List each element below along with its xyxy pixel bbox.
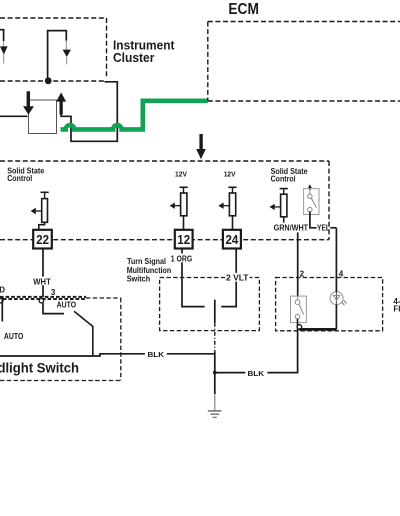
- turn signal pole: [214, 300, 216, 323]
- connector hook left: [0, 299, 3, 303]
- svg-text:22: 22: [36, 233, 49, 247]
- headlight switch blade: [74, 311, 93, 356]
- BLK label right: [245, 369, 267, 379]
- svg-text:Control: Control: [271, 175, 296, 184]
- svg-text:WHT: WHT: [33, 278, 51, 287]
- junction dot BLK: [213, 371, 217, 375]
- BLK wire right: [215, 324, 298, 373]
- junction dot on cluster edge: [45, 77, 52, 84]
- ground symbol: [208, 411, 222, 418]
- pin box 12: [175, 230, 193, 249]
- svg-text:ECM: ECM: [228, 1, 259, 18]
- driver output above pin 24: [218, 187, 236, 230]
- YEL wire down to lamp: [330, 227, 336, 229]
- svg-text:3: 3: [51, 288, 56, 297]
- svg-text:GRN/WHT: GRN/WHT: [274, 224, 309, 233]
- BLK label left: [145, 349, 167, 359]
- instrument cluster box: [0, 18, 107, 81]
- indicator lamp: [330, 228, 346, 330]
- indicator module box (thin): [29, 100, 57, 134]
- thick bus in flasher box: [299, 328, 336, 331]
- svg-text:12V: 12V: [175, 169, 187, 178]
- 1 ORG label: [170, 253, 193, 263]
- svg-text:BLK: BLK: [248, 369, 265, 378]
- down arrow into module: [23, 91, 34, 115]
- turn signal switch box: [160, 278, 260, 331]
- ORG wire from pin 12: [182, 249, 205, 307]
- driver output above GRN/WHT: [270, 189, 288, 223]
- svg-text:BLK: BLK: [148, 350, 165, 359]
- wire pin3 to AUTO contact: [43, 303, 64, 314]
- svg-text:24: 24: [226, 233, 239, 247]
- headlight switch box: [0, 298, 121, 381]
- svg-text:Switch: Switch: [127, 275, 151, 284]
- svg-text:Control: Control: [7, 174, 32, 183]
- GRN/WHT wire down: [297, 232, 299, 296]
- svg-text:1 ORG: 1 ORG: [171, 255, 193, 264]
- svg-text:2 VLT: 2 VLT: [226, 273, 249, 282]
- wire from up arrow to cluster (black loop): [61, 82, 117, 142]
- svg-text:4: 4: [339, 269, 344, 278]
- svg-text:D: D: [0, 285, 5, 294]
- svg-text:YEL: YEL: [317, 224, 330, 233]
- LED indicator right: [48, 31, 71, 80]
- hatched connector line: [0, 297, 121, 299]
- ground pole: [214, 352, 216, 394]
- driver output above pin 22: [31, 192, 49, 230]
- BLK bus left: [0, 354, 215, 356]
- LED indicator left: [0, 30, 8, 64]
- svg-text:12: 12: [177, 233, 190, 247]
- pin box 22: [33, 230, 52, 249]
- svg-text:AUTO: AUTO: [57, 301, 77, 310]
- 4-way flasher box: [276, 278, 383, 331]
- connector hook pin 3: [39, 299, 43, 303]
- svg-text:Flasher: Flasher: [393, 305, 400, 314]
- pole linkage dash-dot: [214, 323, 216, 352]
- down arrow ECM to module: [196, 134, 206, 159]
- svg-text:Turn Signal: Turn Signal: [127, 257, 166, 266]
- svg-text:2: 2: [300, 269, 305, 278]
- svg-text:Cluster: Cluster: [113, 51, 154, 65]
- left contact wire: [1, 296, 3, 322]
- connector loop flasher: [297, 325, 302, 330]
- 2 VLT label: [225, 273, 250, 283]
- ECM box: [208, 22, 400, 102]
- svg-text:AUTO: AUTO: [4, 332, 24, 341]
- solid state control dashed box: [0, 161, 329, 240]
- WHT label: [32, 277, 52, 287]
- WHT wire from pin 22: [42, 249, 44, 297]
- wire from left into down arrow: [0, 115, 28, 117]
- flasher switch contact: [291, 296, 307, 324]
- relay contact in solid state box: [304, 184, 319, 214]
- svg-text:Multifunction: Multifunction: [127, 266, 172, 275]
- pin box 24: [223, 230, 241, 249]
- YEL wire from relay contact: [310, 212, 317, 228]
- up arrow out of module: [56, 92, 66, 114]
- green wire to ECM: [61, 101, 208, 130]
- svg-text:Headlight Switch: Headlight Switch: [0, 360, 79, 375]
- svg-text:12V: 12V: [224, 169, 236, 178]
- driver output above pin 12: [170, 187, 188, 230]
- VLT wire from pin 24: [221, 249, 236, 307]
